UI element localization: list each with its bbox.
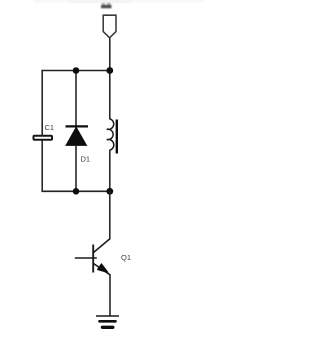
svg-text:C1: C1	[45, 123, 55, 132]
node top main junction	[106, 67, 113, 74]
svg-text:Q1: Q1	[121, 253, 131, 262]
faint cropped band at top edge	[34, 0, 204, 3]
wire left branch lower	[41, 140, 43, 192]
net label (blurred text above connector)	[101, 3, 112, 8]
ground	[96, 316, 119, 327]
wire top horizontal	[42, 70, 110, 72]
node top diode junction	[73, 67, 80, 74]
wire left branch upper	[41, 70, 43, 136]
diode D1	[66, 126, 91, 163]
svg-text:D1: D1	[81, 154, 91, 163]
wire main vertical above inductor	[109, 71, 111, 120]
node bottom diode junction	[73, 188, 80, 195]
power connector J1	[103, 15, 116, 38]
wire main vertical below inductor	[109, 150, 111, 192]
capacitor C1	[34, 123, 55, 140]
wire diode branch upper	[75, 71, 77, 128]
wire bottom horizontal	[42, 190, 110, 192]
wire emitter to ground	[109, 274, 111, 316]
transistor Q1	[75, 239, 131, 275]
wire collector	[109, 191, 111, 239]
inductor L1	[107, 119, 117, 154]
wire connector to top junction	[109, 38, 111, 71]
wire diode branch lower	[75, 145, 77, 191]
node bottom main junction	[106, 188, 113, 195]
